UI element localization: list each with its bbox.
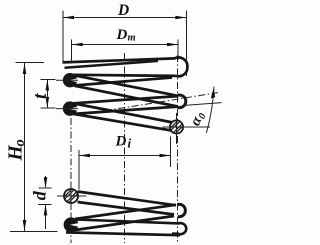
svg-text:o: o [12, 139, 28, 146]
D arrow left [63, 16, 74, 20]
Dm arrow left [72, 43, 83, 47]
t arrow down [46, 97, 50, 108]
svg-text:d: d [30, 190, 50, 200]
flat end ground line [66, 232, 180, 235]
wire section S2 [58, 182, 86, 212]
t dimension line [46, 80, 48, 108]
right loop axis dash-dot [177, 55, 179, 243]
angle arc alpha0 [206, 87, 214, 134]
d arrow bottom [44, 204, 48, 215]
band R2-L2 upper [74, 96, 178, 103]
D dimension line [63, 17, 186, 19]
Di dimension line [79, 155, 171, 157]
H0 dimension line [24, 63, 26, 231]
H0 arrow down [23, 220, 27, 231]
band R2-L2 lower [74, 107, 178, 114]
Di extension line left [78, 150, 80, 190]
band B1-B2 lower [75, 216, 174, 230]
band B1-B2 upper [75, 205, 176, 219]
D extension line left [62, 11, 64, 62]
band L1-R2 upper [74, 75, 178, 96]
L2 centerline stub [56, 108, 78, 110]
label alpha0 [187, 109, 208, 128]
band S2-B1 lower [78, 202, 175, 215]
svg-text:t: t [30, 93, 51, 99]
d arrow bottom shaft [45, 205, 47, 229]
band L2-S1 lower [74, 114, 172, 131]
d tick bottom [38, 203, 52, 205]
center axis dash-dot [124, 53, 126, 243]
loop L1 hairpin [63, 73, 80, 87]
band L2-S1 upper [74, 104, 173, 123]
svg-text:i: i [128, 136, 132, 151]
loop B1 open U [178, 204, 186, 216]
Di extension line right [170, 137, 172, 168]
svg-text:m: m [128, 33, 136, 44]
flat end upper + B3 arc [76, 220, 186, 235]
loop R2 open U [178, 95, 186, 108]
alpha horizontal reference line [185, 103, 222, 106]
H0 extension bottom [10, 231, 58, 233]
top coil outer line + right end arc [63, 57, 188, 76]
label t [30, 93, 51, 99]
S2 vertical centerline [70, 182, 72, 210]
d arrow top shaft [45, 176, 47, 187]
Dm extension line left [71, 40, 73, 64]
wire section S1 [165, 114, 192, 143]
S1 horizontal centerline [163, 126, 211, 128]
inclined coil centerline [105, 93, 218, 111]
Dm arrow right [167, 43, 178, 47]
t arrow up [46, 80, 50, 91]
Dm extension line right [177, 40, 179, 61]
t tick top [41, 79, 56, 81]
d tick top [39, 187, 52, 189]
loop L2 hairpin [63, 101, 80, 115]
svg-text:D: D [116, 27, 128, 43]
angle arc arrowhead [211, 88, 215, 98]
d arrow top [44, 177, 48, 188]
top coil inner line [65, 61, 159, 68]
H0 extension top [16, 62, 45, 64]
svg-text:D: D [115, 134, 127, 150]
left loop axis dash-dot [70, 118, 72, 243]
S1 vertical centerline [176, 113, 178, 144]
band S2-B1 upper [78, 192, 177, 206]
loop B2 hairpin [64, 217, 82, 232]
S2 horizontal centerline [57, 195, 87, 197]
L1 centerline stub [56, 79, 78, 81]
H0 arrow up [23, 63, 27, 74]
band L1-R2 lower [74, 86, 178, 107]
Di arrow left [79, 154, 90, 158]
svg-text:D: D [117, 2, 129, 19]
label d [30, 190, 50, 200]
Dm dimension line [72, 44, 178, 46]
band R1-L1 lower [74, 78, 172, 86]
t tick bottom [41, 107, 56, 109]
D extension line right [185, 11, 187, 77]
label H0 [5, 139, 28, 161]
band R1-L1 upper (return line) [74, 75, 176, 76]
D arrow right [175, 16, 186, 20]
Di arrow right [160, 154, 171, 158]
